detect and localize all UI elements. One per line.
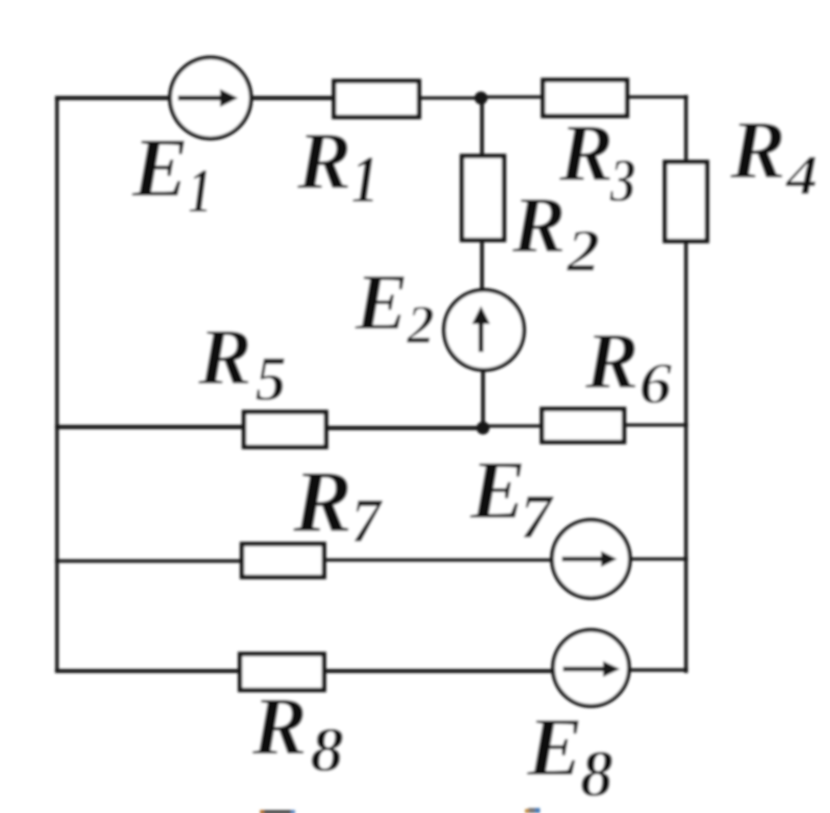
wire R7 to E7 [324,558,554,561]
node B junction dot [477,422,490,435]
svg-text:8: 8 [580,737,614,811]
caption fragment right [525,808,540,813]
resistor R6 [542,409,624,442]
wire right vertical bus below R4 [684,241,688,673]
svg-text:3: 3 [609,148,636,215]
wire bottom row from left bus to R8 [55,669,242,673]
svg-text:R: R [296,115,352,206]
svg-text:R: R [197,312,252,402]
svg-text:R: R [292,453,352,551]
voltage source E1 [170,58,251,139]
wire R5 to node B [326,426,484,430]
wire R2 to E2 [480,240,484,293]
svg-text:1: 1 [351,141,379,217]
wire node B to R6 [483,424,544,427]
wire E7 to right bus [629,557,688,560]
wire E1 to R1 [249,96,336,100]
svg-text:6: 6 [639,351,672,416]
svg-text:4: 4 [785,144,818,207]
svg-text:E: E [354,259,408,347]
wire R8 to E8 [324,669,555,673]
resistor R2 [462,156,504,240]
resistor R8 [240,654,324,690]
resistor R4 [665,162,707,241]
svg-text:1: 1 [188,156,212,226]
svg-text:E: E [469,444,526,537]
svg-text:R: R [511,180,566,270]
svg-text:R: R [251,680,307,772]
wire left vertical bus [55,96,59,673]
svg-text:7: 7 [520,481,555,552]
node A junction dot [475,92,488,105]
wire node A to R3 [483,95,545,98]
svg-text:R: R [729,104,786,197]
svg-text:5: 5 [255,344,287,414]
wire top from left bus to E1 [55,96,172,100]
wire R6 to right bus [624,423,688,426]
svg-text:R: R [558,107,614,198]
svg-text:7: 7 [351,485,384,556]
caption fragment left [260,810,295,813]
wire E8 to bottom right corner [627,668,688,672]
resistor R1 [334,81,419,117]
resistor R5 [244,412,326,447]
svg-text:2: 2 [406,294,435,355]
wire R1 to node A [419,96,483,99]
wire node A down to R2 [480,98,484,158]
voltage source E8 [553,630,629,706]
voltage source E7 [552,520,630,598]
wire R3 to top right corner [627,95,688,98]
voltage source E2 [444,290,524,370]
resistor R3 [543,80,627,116]
resistor R7 [242,544,324,577]
wire E2 to node B [481,370,485,430]
svg-text:8: 8 [310,715,344,785]
wire row3 from left bus to R7 [55,559,244,562]
wire right vertical top segment [684,95,688,164]
svg-text:E: E [131,121,189,215]
wire middle row from left bus to R5 [55,425,246,429]
svg-text:2: 2 [566,218,600,284]
svg-text:R: R [584,316,639,406]
svg-text:E: E [526,701,583,794]
